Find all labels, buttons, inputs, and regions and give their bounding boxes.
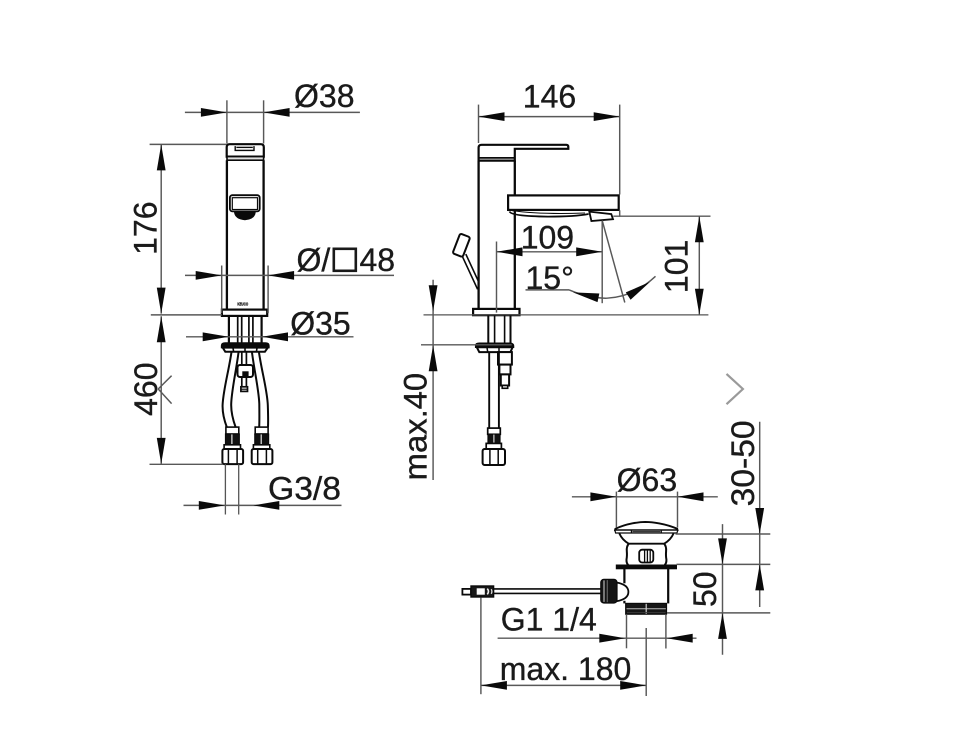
arrowheads — [157, 108, 764, 690]
rod end fittings — [462, 589, 471, 595]
arrow Ø38 right — [264, 108, 290, 117]
arrow 176 bottom — [157, 288, 166, 314]
dim 101 line — [698, 216, 700, 315]
stepped tailpiece — [498, 352, 512, 365]
waste knurl detail — [639, 550, 653, 563]
left supply hose — [223, 352, 232, 427]
hose braid side (dark) — [488, 434, 500, 443]
svg-text:Ø35: Ø35 — [290, 306, 350, 342]
dim max.180 left extension — [480, 598, 482, 695]
dim Ø63 line — [572, 496, 718, 498]
right supply hose — [259, 352, 268, 427]
dim G1 1/4 line — [498, 637, 697, 639]
base extension line — [151, 314, 222, 316]
arrow Ø35 right — [262, 332, 288, 341]
pull-rod knob — [453, 233, 471, 257]
right hose collar — [255, 427, 268, 434]
dim Ø63 extension lines — [615, 492, 617, 528]
dim 460 break mark — [158, 376, 171, 389]
waste neck trumpet — [619, 533, 673, 543]
body column front — [226, 160, 228, 309]
spout box side — [508, 195, 619, 210]
base plate side — [473, 309, 519, 315]
svg-text:max.40: max.40 — [398, 373, 434, 481]
svg-text:KEUCO: KEUCO — [237, 301, 248, 306]
svg-text:101: 101 — [658, 240, 694, 293]
right extension flange level — [677, 563, 771, 565]
svg-text:max. 180: max. 180 — [500, 651, 632, 687]
svg-text:15°: 15° — [526, 260, 574, 296]
arrow 30-50 top — [755, 508, 764, 534]
mounting flange (escutcheon) front — [222, 343, 269, 348]
dim 460 line — [160, 316, 162, 464]
waste body — [623, 569, 625, 584]
arrow G1 left — [599, 634, 625, 643]
arrow Ø35 left — [203, 332, 229, 341]
arrow 146 right — [594, 112, 620, 121]
left connection nut G3/8 — [222, 449, 243, 464]
supply pipes below left nut — [224, 464, 226, 514]
svg-text:146: 146 — [523, 78, 576, 114]
dim G3/8 line — [184, 504, 342, 506]
faucet body front: top cap (handle seen edge-on) — [227, 144, 264, 156]
arrow max180 left — [481, 681, 507, 690]
arrow max40 bottom — [429, 345, 438, 371]
arrow Ø48 right — [268, 271, 294, 280]
arrow 109 right — [576, 247, 602, 256]
right hose braid (dark) — [255, 434, 269, 445]
centre pull-rod below flange — [241, 352, 243, 365]
dim 101 top extension — [613, 215, 710, 217]
flexible hose side — [488, 352, 490, 428]
dim 176 top extension — [150, 143, 227, 145]
arrow 50 top — [718, 538, 727, 564]
svg-text:460: 460 — [128, 363, 164, 416]
arrow 176 top — [157, 144, 166, 170]
svg-text:48: 48 — [360, 242, 396, 278]
hose step side — [486, 443, 501, 449]
left hose braid (dark) — [226, 434, 240, 445]
spout window on body — [230, 195, 260, 211]
dim 460 bottom extension — [150, 463, 224, 465]
left nut cap — [224, 445, 240, 449]
rod lower stub — [241, 387, 248, 392]
knurled rod nut — [601, 579, 617, 603]
arrow G1 right — [667, 634, 693, 643]
right extension cap underside — [676, 533, 771, 535]
water stream 15 deg line — [602, 221, 625, 303]
arrow 101 top — [695, 216, 704, 242]
dim max.40 line — [432, 280, 434, 480]
dim 109 line — [497, 251, 603, 253]
pop-up waste cap dome — [615, 522, 677, 530]
arrow G3/8 left — [199, 501, 225, 510]
arrow 460 top — [157, 316, 166, 342]
outlet axis extension — [601, 221, 603, 303]
svg-text:30-50: 30-50 — [725, 420, 761, 506]
dim max.180 line — [481, 684, 646, 686]
dim 15 deg leader — [526, 289, 570, 291]
mounting nut side — [476, 343, 514, 347]
hose end nut side — [483, 449, 505, 465]
drain axis extension — [645, 628, 647, 696]
arrow max40 top — [429, 285, 438, 311]
arrow max180 right — [620, 681, 646, 690]
dim 146 extension lines — [478, 105, 480, 143]
arrow 109 left — [497, 247, 523, 256]
arrow Ø38 left — [201, 108, 227, 117]
arrow 50 bottom — [718, 613, 727, 639]
arrow 30-50 bottom — [755, 564, 764, 590]
dim Ø35 line — [186, 336, 354, 338]
arrow 460 bottom — [157, 438, 166, 464]
threaded section G1 1/4 — [626, 603, 667, 614]
dim 50 line — [722, 524, 724, 655]
outlet nozzle — [589, 212, 613, 221]
arrow 15deg right — [626, 278, 653, 300]
cap lower band — [227, 157, 264, 161]
arrow 146 left — [479, 112, 505, 121]
dim 176 line — [160, 144, 162, 313]
body column side — [477, 161, 479, 309]
dim Ø/□48 extension lines — [221, 266, 223, 314]
arrow Ø63 right — [678, 492, 704, 501]
aerator dark arc under window — [234, 211, 256, 220]
left hose collar — [226, 427, 239, 434]
cap top notch — [235, 146, 254, 150]
lever handle side — [479, 145, 569, 161]
dim Ø/□48 line — [185, 274, 394, 276]
right extension thread bottom — [667, 612, 770, 614]
dim 30-50 line — [759, 422, 761, 607]
mounting surface line — [424, 314, 709, 316]
right nut cap — [253, 445, 269, 449]
pull-rod stem — [462, 256, 477, 289]
dim Ø38 extension lines — [226, 100, 228, 143]
threaded shank side — [487, 315, 489, 343]
shank bundle below plate — [228, 316, 230, 344]
svg-text:176: 176 — [128, 202, 164, 255]
svg-text:Ø38: Ø38 — [294, 78, 354, 114]
horizontal pull rod — [494, 588, 601, 590]
svg-text:G3/8: G3/8 — [268, 471, 341, 507]
svg-text:Ø63: Ø63 — [617, 462, 677, 498]
waste flange disc — [616, 565, 676, 569]
arrow 101 bottom — [695, 289, 704, 315]
carousel chevron — [727, 374, 743, 404]
base plate front — [222, 310, 267, 316]
dim Ø38 line — [185, 111, 360, 113]
svg-text:50: 50 — [687, 571, 723, 607]
thread extension lines — [626, 614, 628, 648]
dim 15 deg arc — [570, 276, 656, 298]
ball joint socket — [616, 583, 628, 602]
dim max.40 lower extension — [421, 344, 512, 346]
right connection nut G3/8 — [252, 449, 273, 464]
hose collar side — [488, 428, 501, 434]
arrow Ø63 left — [590, 492, 616, 501]
svg-text:G1 1/4: G1 1/4 — [501, 602, 597, 638]
dim 146 line — [479, 116, 620, 118]
arrow Ø48 left — [196, 271, 222, 280]
rod coupler — [238, 365, 254, 377]
faucet axis extension — [496, 242, 498, 313]
svg-text:109: 109 — [521, 220, 574, 256]
arrow G3/8 right — [253, 501, 279, 510]
svg-text:Ø/: Ø/ — [297, 242, 331, 278]
arrow 15deg left — [572, 288, 599, 302]
spout belly curve — [510, 212, 589, 217]
